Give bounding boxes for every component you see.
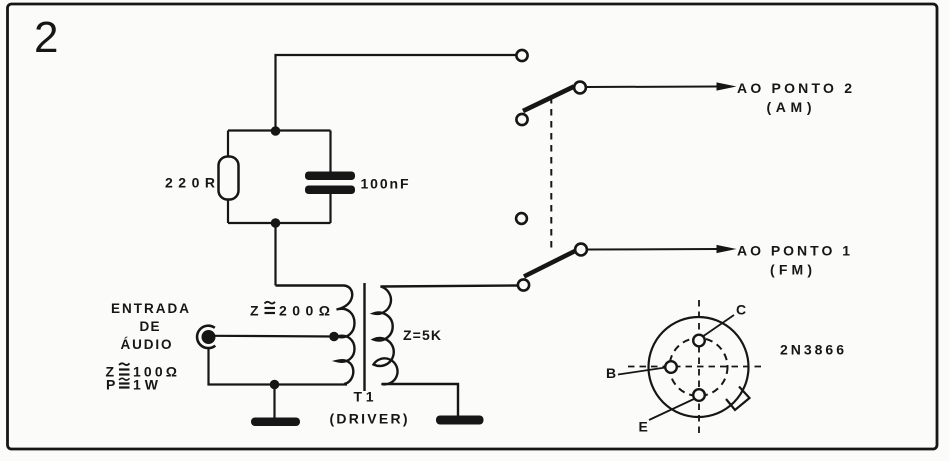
node: primary tap junction dot <box>329 332 339 342</box>
audio input jack J1 <box>197 326 215 348</box>
svg-text:1W: 1W <box>133 377 159 393</box>
transistor inner dashed circle <box>670 338 728 396</box>
wire: S1b pole to arrow <box>588 248 718 251</box>
wire: right rail of RC loop (to capacitor) <box>329 131 331 174</box>
pin C <box>693 335 705 347</box>
wire: left rail of RC loop <box>227 131 229 224</box>
switch S1a pole terminal <box>574 82 586 94</box>
ground (right bar) <box>436 416 484 425</box>
wire: top rail from RC junction to switch S1a input <box>276 55 517 132</box>
switch S1a terminal (input, from RC) <box>516 50 527 61</box>
leader line to E <box>649 399 695 421</box>
node: bottom junction dot <box>271 218 281 228</box>
transistor case tab <box>726 387 750 411</box>
ground (left bar) <box>251 418 300 427</box>
pin E <box>693 389 705 401</box>
svg-text:P: P <box>106 377 116 393</box>
wire: from RC bottom junction down to transformer primary top <box>274 223 276 286</box>
switch S1b lever <box>524 251 576 277</box>
resistor R 220R <box>219 157 239 200</box>
arrow to AO PONTO 2 <box>717 82 737 90</box>
pin B <box>665 361 677 373</box>
wire: jack sleeve down and right to primary bottom <box>209 349 348 385</box>
transistor Q1 2N3866 case outline (bottom view) <box>649 317 749 417</box>
crosshair vertical dashed <box>698 300 700 436</box>
label Z=100 ohm <box>106 363 178 379</box>
transformer T1 core <box>363 283 365 391</box>
svg-text:Z=5K: Z=5K <box>403 327 441 343</box>
crosshair horizontal dashed <box>628 366 761 368</box>
svg-text:B: B <box>606 365 616 381</box>
svg-text:Z: Z <box>250 303 261 319</box>
svg-text:100nF: 100nF <box>361 176 409 192</box>
wire: S1a pole to arrow <box>587 86 718 89</box>
wire: down to ground (left) <box>273 385 275 420</box>
node: junction dot at ground tap <box>270 380 280 390</box>
label ENTRADA DE AUDIO <box>111 301 189 352</box>
wire: RC parallel network top rail <box>228 129 331 131</box>
switch S1b pole terminal <box>575 244 587 256</box>
label P=1W <box>106 377 159 393</box>
node: top junction dot <box>271 126 281 136</box>
svg-text:2: 2 <box>34 13 58 62</box>
transformer T1 primary winding <box>276 286 355 385</box>
switch S1a lever <box>523 87 574 112</box>
svg-text:(DRIVER): (DRIVER) <box>330 411 408 427</box>
arrow to AO PONTO 1 <box>717 245 737 253</box>
wire: tap wire from audio jack to primary tap <box>215 335 335 338</box>
switch S1b throw terminal (upper, unused) <box>516 213 527 224</box>
svg-text:C: C <box>736 302 746 318</box>
label Z=200 ohm (primary) <box>250 302 330 319</box>
svg-text:DE: DE <box>140 319 160 334</box>
dashed gang line between switch sections <box>550 97 552 251</box>
switch S1b terminal (input, from secondary) <box>518 279 529 290</box>
capacitor C 100nF <box>305 172 355 195</box>
wire: RC parallel network bottom rail <box>228 222 331 224</box>
transformer T1 secondary winding <box>374 286 519 417</box>
leader line to B <box>618 368 666 375</box>
svg-text:E: E <box>639 419 648 435</box>
leader line to C <box>704 315 735 336</box>
svg-text:ÁUDIO: ÁUDIO <box>121 337 172 352</box>
switch S1a throw terminal (lower) <box>516 114 527 125</box>
